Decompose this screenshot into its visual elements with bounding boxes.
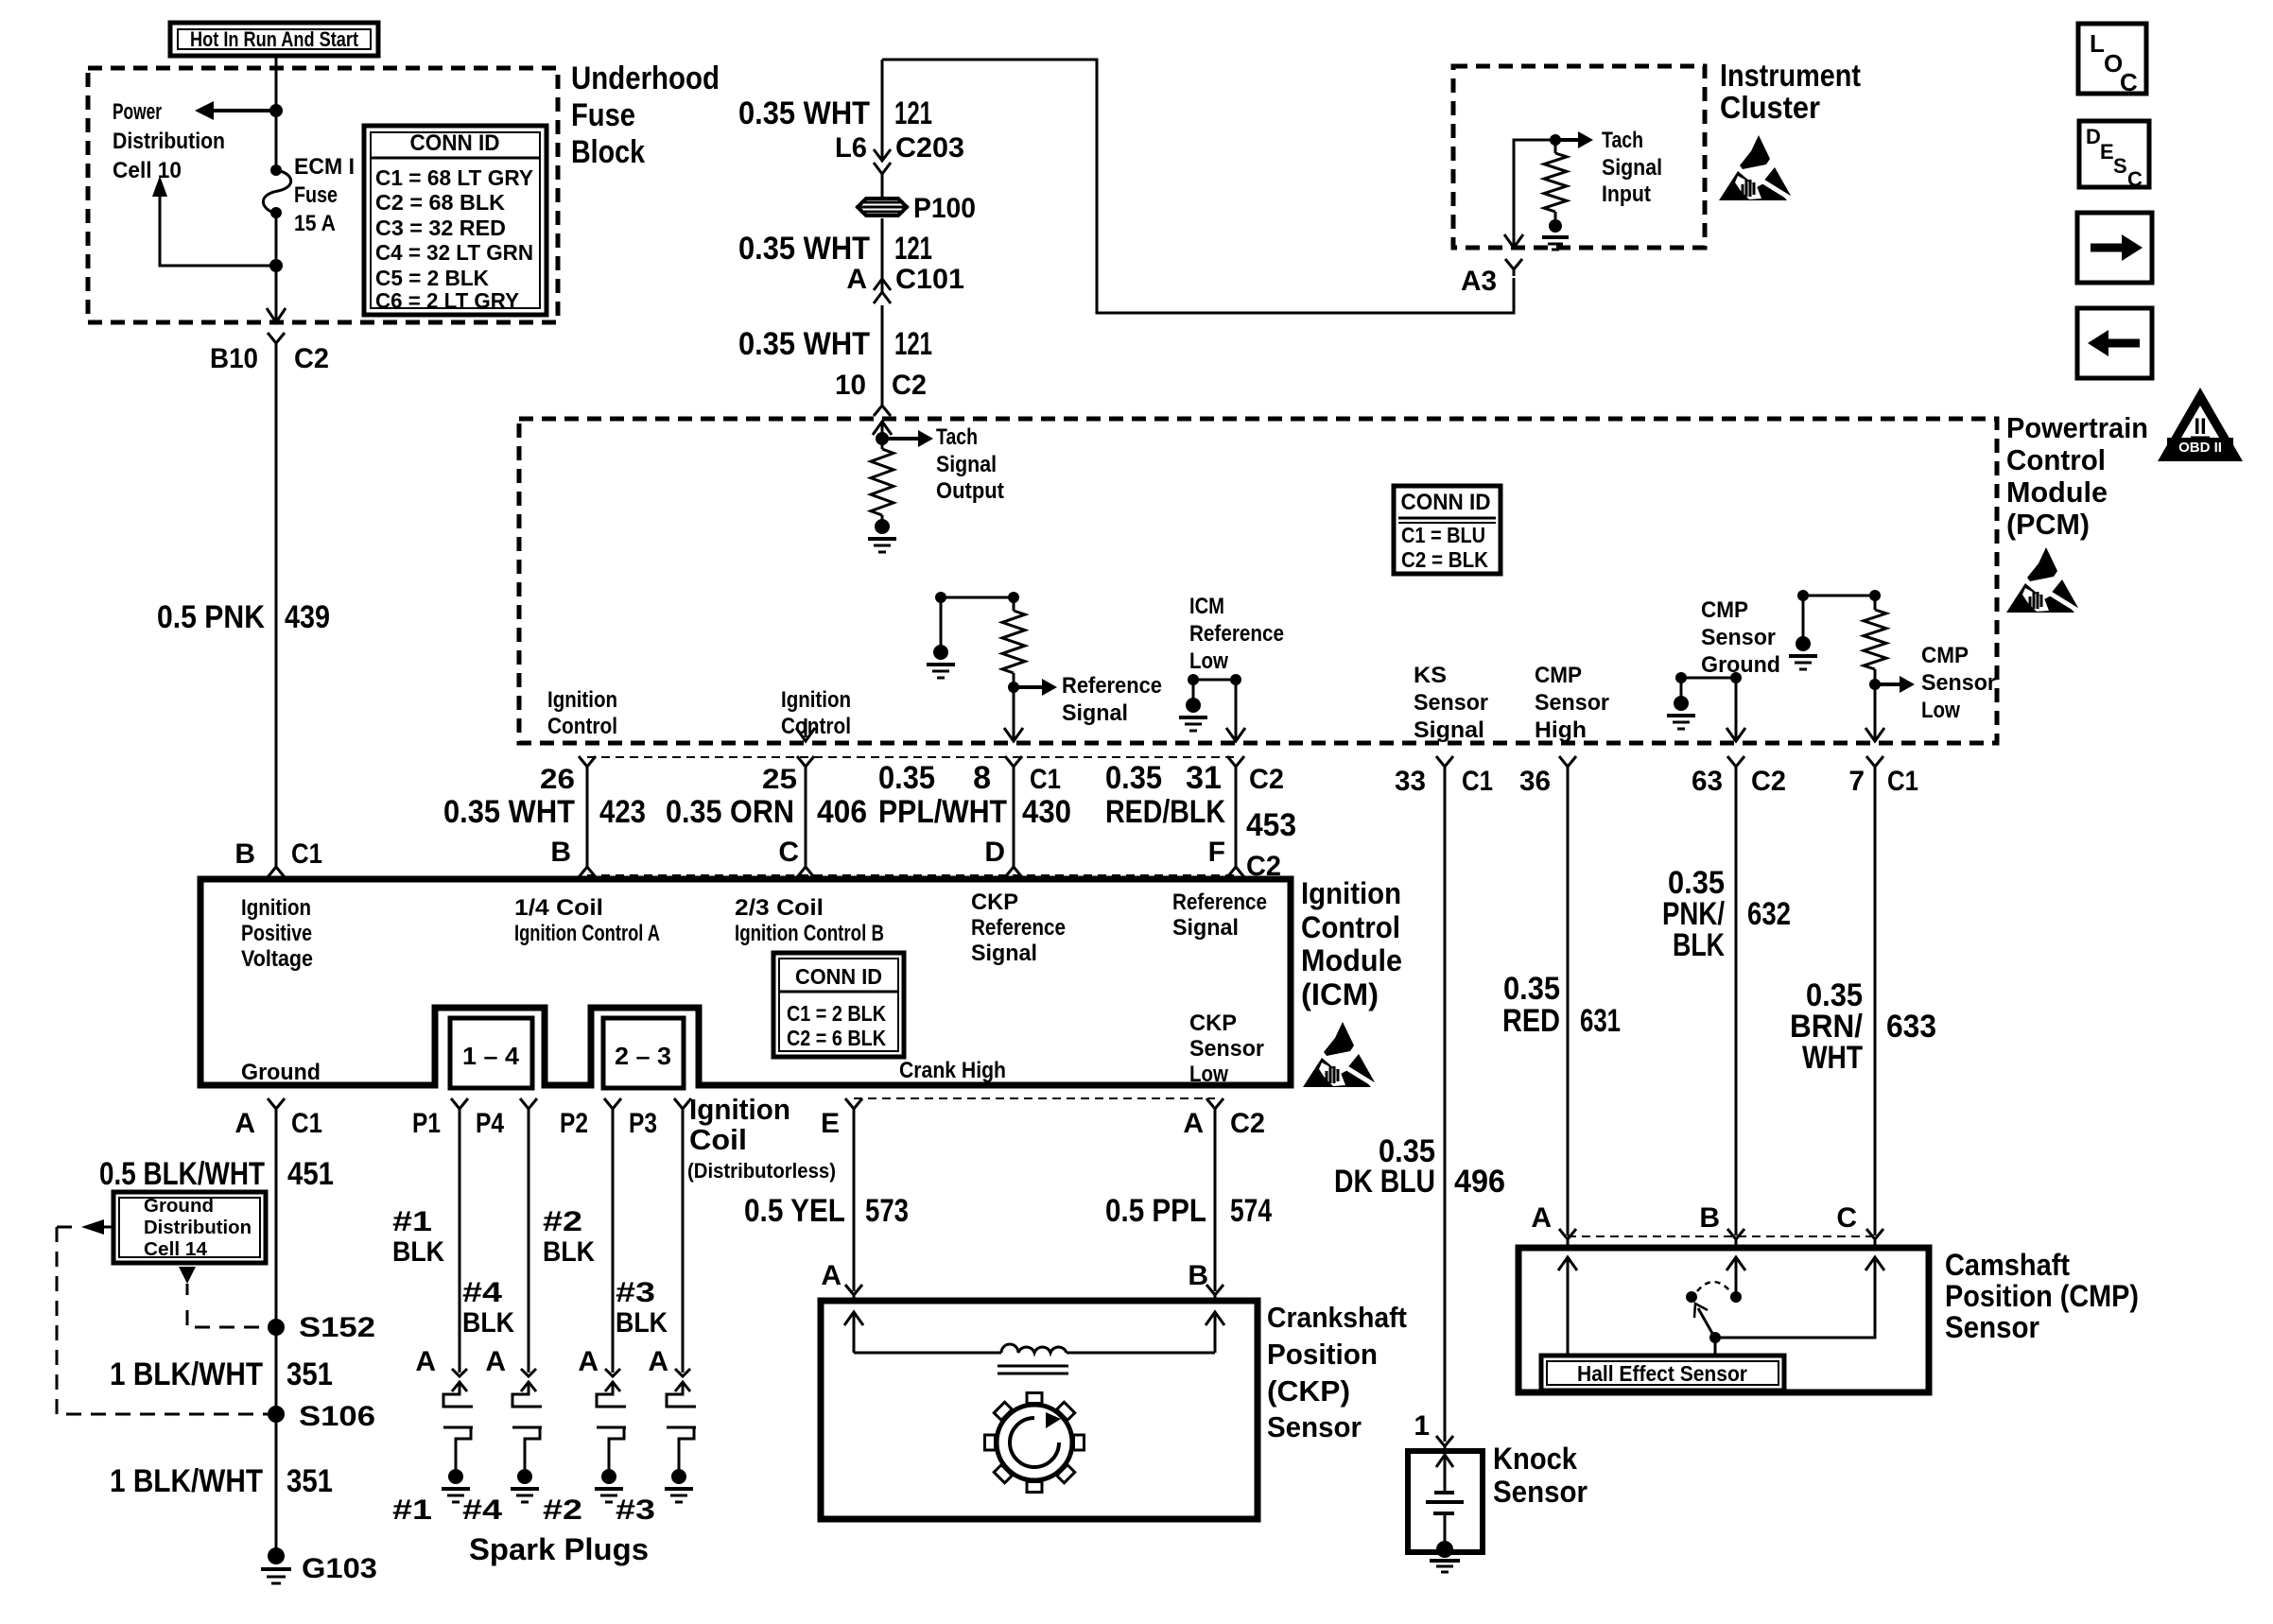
svg-text:0.35 WHT: 0.35 WHT — [738, 95, 870, 131]
svg-text:ECM I: ECM I — [294, 154, 355, 180]
svg-text:0.35: 0.35 — [1105, 760, 1162, 796]
wire spark plug #1 — [459, 1113, 461, 1373]
svg-text:CMP: CMP — [1701, 597, 1748, 623]
svg-text:A: A — [821, 1260, 842, 1291]
svg-text:C2: C2 — [1230, 1108, 1265, 1139]
svg-text:C1 = 2 BLK: C1 = 2 BLK — [787, 1001, 886, 1026]
Ground Distribution Cell 14 box — [113, 1192, 266, 1263]
svg-text:#4: #4 — [462, 1277, 502, 1308]
CKP rotation arrow — [1010, 1418, 1059, 1467]
coil pair box 2-3 — [603, 1018, 684, 1088]
svg-text:15 A: 15 A — [294, 211, 336, 236]
resistor reference signal — [1013, 597, 1015, 611]
connector A C1 (ICM ground out) — [268, 1098, 285, 1109]
svg-text:BLK: BLK — [616, 1307, 668, 1339]
CKP internal pickup coil — [844, 1312, 863, 1325]
wire 0.5 BLK/WHT 451 — [275, 1113, 278, 1556]
svg-text:26: 26 — [540, 764, 575, 795]
ground G103 — [268, 1547, 285, 1564]
svg-text:A: A — [415, 1346, 436, 1377]
svg-text:633: 633 — [1886, 1009, 1936, 1045]
junction dot reference signal — [1008, 682, 1019, 693]
svg-text:(Distributorless): (Distributorless) — [687, 1159, 836, 1183]
svg-text:D: D — [984, 837, 1005, 868]
svg-text:Ground: Ground — [1701, 652, 1780, 678]
svg-text:A: A — [1183, 1108, 1204, 1139]
connector P1 (ICM) — [451, 1098, 468, 1109]
svg-text:CONN ID: CONN ID — [1401, 490, 1491, 515]
ground CMP sensor ground — [1674, 696, 1689, 711]
svg-text:A: A — [846, 264, 867, 295]
svg-text:1 – 4: 1 – 4 — [462, 1042, 520, 1070]
svg-text:Distribution: Distribution — [113, 129, 225, 154]
tach signal output circuit — [873, 422, 892, 435]
svg-text:Fuse: Fuse — [294, 182, 338, 208]
dashed ground path left — [57, 1226, 76, 1229]
svg-text:Position: Position — [1267, 1338, 1378, 1371]
svg-text:0.35: 0.35 — [1503, 971, 1560, 1007]
Underhood Fuse Block dashed box — [88, 68, 558, 322]
connector A3 — [1505, 259, 1522, 269]
svg-text:A: A — [578, 1346, 599, 1377]
wire tach feed 0.35 WHT 121 — [881, 60, 884, 159]
svg-text:631: 631 — [1580, 1003, 1621, 1039]
svg-text:P3: P3 — [629, 1108, 657, 1139]
ICM reference low circuit — [1193, 679, 1236, 682]
svg-text:430: 430 — [1022, 794, 1071, 830]
svg-text:Sensor: Sensor — [1701, 625, 1776, 650]
grommet P100 — [858, 199, 907, 216]
svg-text:C1: C1 — [1030, 764, 1061, 795]
svg-text:439: 439 — [285, 599, 330, 635]
svg-text:451: 451 — [287, 1156, 334, 1192]
resistor tach input — [1554, 140, 1557, 153]
svg-text:Camshaft: Camshaft — [1945, 1248, 2070, 1282]
ground tach input — [1549, 219, 1562, 233]
spark plug #1 — [452, 1382, 467, 1391]
svg-text:351: 351 — [286, 1356, 333, 1392]
svg-text:Cell 14: Cell 14 — [144, 1239, 208, 1260]
svg-text:C101: C101 — [895, 264, 964, 295]
svg-text:P1: P1 — [412, 1108, 441, 1139]
svg-text:Control: Control — [2006, 443, 2106, 476]
svg-text:423: 423 — [599, 794, 646, 830]
svg-text:C5 = 2 BLK: C5 = 2 BLK — [375, 266, 489, 290]
svg-text:Signal: Signal — [1602, 155, 1662, 181]
svg-text:Ignition: Ignition — [241, 895, 311, 921]
svg-text:10: 10 — [835, 370, 866, 401]
svg-text:Spark Plugs: Spark Plugs — [469, 1532, 649, 1566]
svg-text:C1 = 68 LT GRY: C1 = 68 LT GRY — [375, 165, 533, 190]
legend box DESC — [2079, 121, 2149, 187]
svg-text:CONN ID: CONN ID — [410, 130, 500, 156]
svg-text:F: F — [1208, 837, 1225, 868]
svg-text:Coil: Coil — [689, 1123, 747, 1156]
svg-text:1 BLK/WHT: 1 BLK/WHT — [110, 1463, 263, 1499]
svg-text:0.35: 0.35 — [878, 760, 935, 796]
wire 0.35 DK BLU 496 — [1444, 767, 1447, 1442]
legend box arrow right — [2077, 213, 2152, 283]
svg-text:25: 25 — [762, 764, 797, 795]
svg-text:121: 121 — [894, 231, 932, 267]
ESD symbol PCM — [2006, 547, 2081, 613]
ground reference left — [933, 645, 948, 660]
wire P100 to C101 — [881, 218, 884, 292]
svg-text:#3: #3 — [616, 1494, 655, 1526]
wire 0.35 PNK/BLK 632 — [1735, 767, 1738, 1235]
connector 33 C1 (PCM) — [1436, 756, 1453, 767]
svg-text:#3: #3 — [616, 1277, 655, 1308]
resistor tach output — [871, 449, 894, 515]
svg-text:C2 = BLK: C2 = BLK — [1401, 547, 1488, 572]
svg-text:1: 1 — [1414, 1410, 1430, 1442]
svg-text:Module: Module — [2006, 475, 2108, 509]
svg-text:Output: Output — [936, 478, 1004, 504]
wire spark plug #4 — [528, 1113, 530, 1373]
svg-text:C1 = BLU: C1 = BLU — [1401, 523, 1485, 547]
svg-text:Hall Effect Sensor: Hall Effect Sensor — [1577, 1361, 1747, 1386]
wire loop instrument cluster to tach feed — [882, 60, 1514, 313]
wire fuse to splice — [275, 213, 278, 324]
arrow CMP sensor low — [1875, 682, 1900, 686]
svg-text:0.5 YEL: 0.5 YEL — [744, 1193, 845, 1229]
svg-text:Signal: Signal — [936, 452, 997, 477]
junction dot CMP sensor low — [1869, 679, 1881, 690]
svg-text:C2: C2 — [1751, 766, 1786, 797]
wire 0.5 PNK 439 — [275, 356, 278, 856]
junction dot to cell10 return — [269, 259, 283, 272]
connector P4 (ICM) — [520, 1098, 537, 1109]
arrow left from ground distribution box — [81, 1219, 104, 1235]
svg-text:632: 632 — [1747, 896, 1791, 932]
svg-text:ICM: ICM — [1189, 594, 1224, 619]
svg-text:DK BLU: DK BLU — [1334, 1164, 1435, 1200]
tach signal input circuit — [1514, 140, 1555, 248]
svg-text:Ignition: Ignition — [1301, 876, 1401, 910]
svg-text:C1: C1 — [1887, 766, 1918, 797]
svg-text:S: S — [2113, 154, 2127, 178]
svg-text:Low: Low — [1189, 1062, 1228, 1087]
svg-text:Reference: Reference — [1062, 673, 1162, 699]
svg-text:BLK: BLK — [392, 1236, 444, 1268]
svg-text:121: 121 — [894, 95, 932, 131]
svg-text:WHT: WHT — [1802, 1040, 1863, 1076]
svg-text:Ignition Control A: Ignition Control A — [514, 921, 660, 946]
svg-text:B: B — [1699, 1202, 1720, 1234]
svg-text:Control: Control — [781, 714, 851, 739]
svg-text:C2: C2 — [294, 343, 329, 374]
svg-text:Ignition: Ignition — [547, 687, 617, 713]
svg-text:P100: P100 — [913, 193, 976, 224]
svg-text:C2: C2 — [1249, 764, 1284, 795]
svg-text:C3 = 32 RED: C3 = 32 RED — [375, 216, 506, 240]
svg-text:#4: #4 — [462, 1494, 502, 1526]
svg-text:RED/BLK: RED/BLK — [1105, 794, 1225, 830]
CMP internal hall wires — [1558, 1257, 1577, 1270]
svg-text:2 – 3: 2 – 3 — [615, 1042, 671, 1070]
svg-text:Reference: Reference — [1189, 621, 1284, 647]
ground tach output — [875, 519, 890, 534]
svg-text:PPL/WHT: PPL/WHT — [878, 794, 1007, 830]
label box 'Hot In Run And Start' — [170, 23, 378, 56]
wire return to Cell 10 arrow — [160, 195, 276, 266]
wire ignition feed from Hot In Run And Start — [275, 56, 278, 164]
arrow out CMP sensor ground pin 63 — [1726, 728, 1745, 741]
resistor CMP sensor low — [1864, 610, 1886, 669]
svg-text:Tach: Tach — [1602, 128, 1643, 153]
svg-text:S106: S106 — [299, 1401, 375, 1432]
svg-text:Low: Low — [1189, 648, 1228, 674]
wire ignition pin 31 to ICM — [1227, 756, 1244, 767]
svg-text:#2: #2 — [543, 1206, 582, 1237]
svg-text:P2: P2 — [560, 1108, 588, 1139]
OBD II symbol — [2158, 388, 2243, 461]
svg-text:0.35 WHT: 0.35 WHT — [443, 794, 575, 830]
Crankshaft Position (CKP) Sensor box — [821, 1301, 1258, 1519]
splice S152 — [268, 1319, 285, 1336]
svg-text:Reference: Reference — [1172, 890, 1267, 915]
connector P2 (ICM) — [604, 1098, 621, 1109]
arrow down from ground distribution box — [179, 1267, 196, 1284]
svg-text:Instrument: Instrument — [1720, 58, 1861, 93]
CKP reluctor wheel — [997, 1405, 1072, 1480]
svg-text:Control: Control — [547, 714, 617, 739]
wire spark plug #2 — [612, 1113, 615, 1373]
svg-text:D: D — [2086, 125, 2101, 148]
splice S106 — [268, 1406, 285, 1423]
connector P3 (ICM) — [674, 1098, 691, 1109]
svg-text:C: C — [2120, 68, 2138, 96]
svg-text:121: 121 — [894, 326, 932, 362]
svg-text:Cell 10: Cell 10 — [113, 158, 182, 183]
svg-text:33: 33 — [1395, 766, 1426, 797]
legend box LOC — [2078, 24, 2146, 94]
svg-text:G103: G103 — [302, 1553, 377, 1584]
svg-text:63: 63 — [1692, 766, 1723, 797]
svg-text:E: E — [821, 1108, 840, 1139]
arrow out CMP sensor low pin 7 — [1865, 728, 1884, 741]
svg-text:Power: Power — [113, 99, 162, 125]
svg-text:#1: #1 — [392, 1206, 432, 1237]
spark plug #4 — [521, 1382, 536, 1391]
svg-text:Sensor: Sensor — [1267, 1410, 1362, 1443]
wire 0.35 RED 631 — [1567, 767, 1570, 1235]
ground CMP sensor low — [1796, 636, 1811, 651]
svg-text:8: 8 — [973, 760, 991, 796]
spark plug #3 — [675, 1382, 690, 1391]
svg-text:Crank High: Crank High — [899, 1058, 1006, 1083]
wire C101 to PCM — [881, 305, 884, 404]
svg-text:CONN ID: CONN ID — [795, 964, 882, 989]
ground knock sensor — [1436, 1541, 1453, 1558]
coil pair box 1-4 — [450, 1018, 532, 1088]
thin dashed connector line bottom (ICM side) — [587, 874, 1236, 876]
wire ignition pin 26 to ICM — [579, 756, 596, 767]
svg-text:(PCM): (PCM) — [2006, 508, 2090, 541]
svg-text:C: C — [2127, 167, 2143, 191]
CONN ID table (fuse block) — [364, 126, 547, 315]
svg-text:0.5 PPL: 0.5 PPL — [1105, 1193, 1206, 1229]
svg-text:C1: C1 — [1462, 766, 1493, 797]
svg-text:#2: #2 — [543, 1494, 582, 1526]
arrow to Power Distribution Cell 10 — [214, 109, 276, 112]
ICM CONN ID table — [773, 953, 904, 1057]
svg-text:B10: B10 — [210, 343, 258, 374]
Hall Effect Sensor box — [1541, 1356, 1784, 1391]
svg-text:36: 36 — [1519, 766, 1551, 797]
svg-text:Sensor: Sensor — [1189, 1036, 1264, 1062]
wire ignition pin 25 to ICM — [797, 756, 814, 767]
connector L6 C203 — [874, 149, 891, 161]
PCM CONN ID table — [1394, 486, 1501, 574]
svg-text:406: 406 — [817, 794, 867, 830]
svg-text:L: L — [2090, 29, 2105, 58]
svg-text:C2 = 68 BLK: C2 = 68 BLK — [375, 190, 505, 215]
svg-text:Underhood: Underhood — [571, 60, 720, 96]
svg-text:CMP: CMP — [1921, 643, 1969, 668]
Instrument Cluster dashed box — [1453, 66, 1705, 248]
svg-text:C2: C2 — [892, 370, 927, 401]
svg-text:0.35 WHT: 0.35 WHT — [738, 231, 870, 267]
svg-text:Signal: Signal — [1062, 700, 1128, 726]
svg-text:C2 = 6 BLK: C2 = 6 BLK — [787, 1026, 886, 1050]
svg-text:Sensor: Sensor — [1921, 670, 1996, 696]
svg-text:KS: KS — [1414, 663, 1447, 688]
svg-text:Sensor: Sensor — [1535, 690, 1609, 716]
svg-text:0.5 PNK: 0.5 PNK — [157, 599, 265, 635]
svg-text:Powertrain: Powertrain — [2006, 411, 2148, 444]
svg-text:(CKP): (CKP) — [1267, 1374, 1350, 1408]
svg-text:0.5 BLK/WHT: 0.5 BLK/WHT — [99, 1156, 265, 1192]
knock sensor piezo element — [1436, 1455, 1453, 1467]
svg-text:CKP: CKP — [971, 890, 1018, 915]
svg-text:A: A — [234, 1108, 255, 1139]
svg-text:1 BLK/WHT: 1 BLK/WHT — [110, 1356, 263, 1392]
wire spark plug #3 — [682, 1113, 685, 1373]
thin dashed connector line CMP — [1568, 1235, 1875, 1237]
svg-text:A3: A3 — [1461, 266, 1497, 297]
svg-text:Module: Module — [1301, 943, 1402, 977]
svg-text:BLK: BLK — [1673, 927, 1725, 963]
CMP sensor ground circuit — [1681, 677, 1736, 680]
svg-text:Ground: Ground — [241, 1060, 321, 1085]
svg-text:Reference: Reference — [971, 915, 1066, 941]
svg-text:7: 7 — [1848, 766, 1865, 797]
svg-text:C4 = 32 LT GRN: C4 = 32 LT GRN — [375, 240, 533, 265]
svg-text:C1: C1 — [291, 1108, 322, 1139]
svg-text:BLK: BLK — [462, 1307, 514, 1339]
svg-text:C203: C203 — [895, 132, 964, 164]
svg-text:Distribution: Distribution — [144, 1218, 252, 1238]
Ignition Control Module box — [200, 879, 1291, 1085]
arrow out of instrument cluster — [1504, 234, 1523, 248]
CMP sensor low circuit — [1803, 595, 1875, 597]
Camshaft Position (CMP) Sensor box — [1518, 1248, 1929, 1392]
svg-text:BLK: BLK — [543, 1236, 595, 1268]
svg-text:Ignition Control B: Ignition Control B — [735, 921, 884, 946]
svg-text:Position (CMP): Position (CMP) — [1945, 1279, 2139, 1313]
svg-text:2/3 Coil: 2/3 Coil — [735, 895, 824, 921]
connector E (ICM) — [845, 1098, 862, 1109]
connector 63 C2 (PCM) — [1727, 756, 1744, 767]
svg-text:C1: C1 — [291, 838, 322, 870]
svg-text:Tach: Tach — [936, 424, 978, 450]
svg-text:0.35 WHT: 0.35 WHT — [738, 326, 870, 362]
wire below C203 — [881, 174, 884, 197]
wire 0.5 PPL 574 — [1214, 1113, 1217, 1291]
svg-text:C: C — [778, 837, 799, 868]
ground ICM reference low — [1186, 698, 1201, 713]
svg-text:Voltage: Voltage — [241, 946, 313, 972]
svg-text:Hot In Run And Start: Hot In Run And Start — [190, 27, 359, 51]
svg-text:Signal: Signal — [1414, 717, 1484, 743]
svg-text:Input: Input — [1602, 181, 1651, 207]
svg-text:C6 = 2 LT GRY: C6 = 2 LT GRY — [375, 288, 519, 313]
svg-text:A: A — [485, 1346, 506, 1377]
svg-text:31: 31 — [1186, 760, 1222, 796]
svg-text:A: A — [648, 1346, 668, 1377]
wire 0.5 YEL 573 — [853, 1113, 856, 1291]
svg-text:Low: Low — [1921, 698, 1960, 723]
svg-text:Sensor: Sensor — [1945, 1310, 2039, 1344]
arrow out reference signal pin 8 — [1004, 728, 1023, 741]
svg-text:1/4 Coil: 1/4 Coil — [514, 895, 603, 921]
svg-text:E: E — [2100, 140, 2114, 164]
svg-text:Signal: Signal — [1172, 915, 1239, 941]
svg-text:0.35 ORN: 0.35 ORN — [666, 794, 794, 830]
connector A C2 (ICM) — [1206, 1098, 1223, 1109]
spark plug #2 — [605, 1382, 620, 1391]
connector B10 C2 out of fuse block — [267, 308, 286, 322]
svg-text:OBD II: OBD II — [2178, 440, 2222, 456]
arrow out ignition control pin 25 — [805, 718, 807, 737]
arrow tach signal output — [882, 437, 918, 441]
svg-text:Cluster: Cluster — [1720, 90, 1820, 125]
svg-text:Fuse: Fuse — [571, 97, 635, 133]
svg-text:P4: P4 — [476, 1108, 504, 1139]
svg-text:B: B — [1188, 1260, 1208, 1291]
thin dashed connector line ICM C2 — [854, 1097, 1215, 1099]
svg-text:Signal: Signal — [971, 941, 1037, 966]
svg-text:Ground: Ground — [144, 1196, 214, 1217]
legend box arrow left — [2077, 308, 2152, 378]
svg-text:Block: Block — [571, 134, 645, 170]
svg-text:Control: Control — [1301, 910, 1400, 944]
reference signal circuit — [941, 596, 1014, 599]
svg-text:CMP: CMP — [1535, 663, 1582, 688]
svg-text:Sensor: Sensor — [1414, 690, 1488, 716]
arrow tach signal input — [1555, 138, 1578, 142]
svg-text:RED: RED — [1502, 1003, 1560, 1039]
arrow out ICM reference low pin 31 — [1226, 728, 1245, 741]
svg-text:Ignition: Ignition — [781, 687, 851, 713]
svg-text:351: 351 — [286, 1463, 333, 1499]
svg-text:573: 573 — [865, 1193, 909, 1229]
svg-text:Knock: Knock — [1493, 1442, 1577, 1476]
svg-text:574: 574 — [1230, 1193, 1272, 1229]
svg-text:Crankshaft: Crankshaft — [1267, 1301, 1407, 1334]
svg-text:Sensor: Sensor — [1493, 1475, 1588, 1509]
thin dashed connector line top (PCM side) — [587, 756, 1236, 758]
svg-text:S152: S152 — [299, 1312, 375, 1343]
fuse ECM I 15A — [270, 164, 282, 176]
wire ignition pin 8 to ICM — [1005, 756, 1022, 767]
svg-text:453: 453 — [1246, 807, 1296, 843]
svg-text:Positive: Positive — [241, 921, 312, 946]
ESD symbol ICM — [1303, 1022, 1378, 1087]
junction dot power distribution — [269, 104, 283, 117]
arrow reference signal — [1014, 685, 1042, 689]
